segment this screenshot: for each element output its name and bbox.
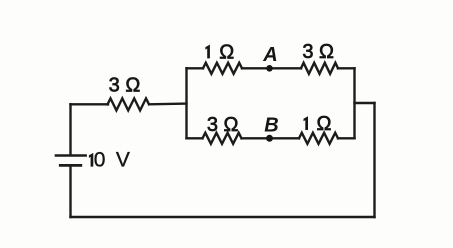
svg-text:B: B: [264, 114, 278, 136]
svg-text:Ω: Ω: [219, 41, 234, 63]
svg-text:3 Ω: 3 Ω: [302, 41, 334, 63]
svg-text:A: A: [262, 44, 277, 66]
svg-text:0: 0: [94, 149, 105, 172]
svg-text:V: V: [116, 149, 130, 172]
svg-text:Ω: Ω: [317, 113, 332, 135]
svg-text:3 Ω: 3 Ω: [109, 75, 141, 97]
svg-text:3 Ω: 3 Ω: [207, 114, 239, 136]
